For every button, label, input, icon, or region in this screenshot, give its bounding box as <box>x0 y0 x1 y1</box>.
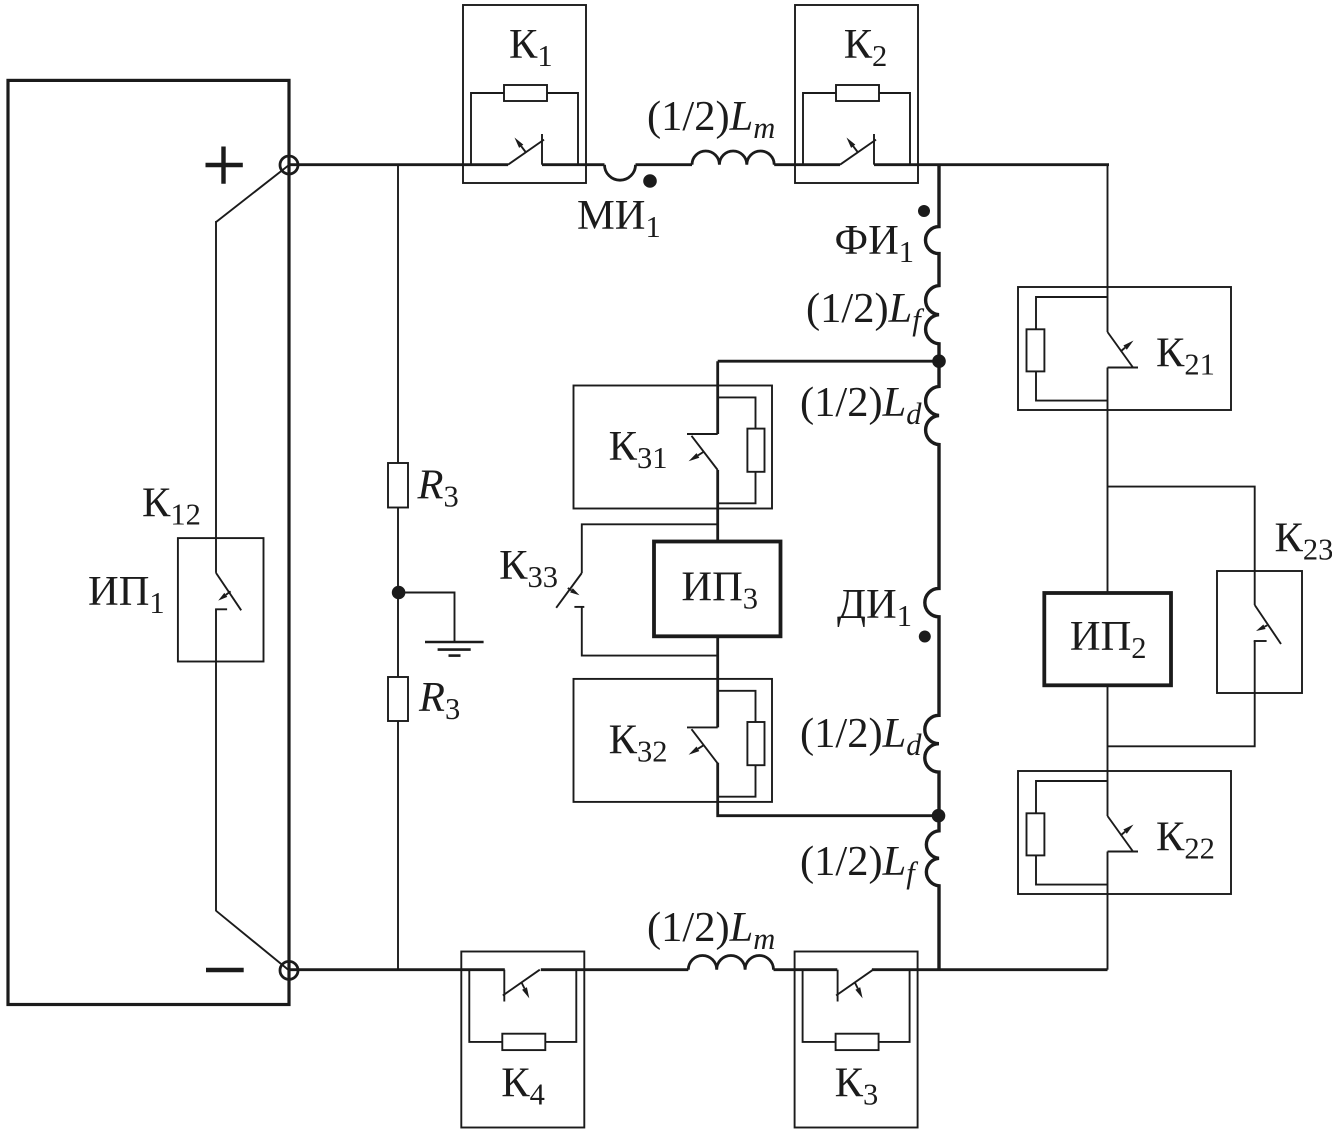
switch K33 fixed contact <box>574 606 584 608</box>
switch K12 blade <box>216 573 241 610</box>
contactor К1 fixed contact <box>541 134 543 165</box>
wire bottom bus: K3 to K22 branch <box>872 968 1108 971</box>
wire right branch: K22 to bottom bus <box>1107 852 1109 970</box>
contactor К4 shunt bracket <box>469 970 576 1042</box>
contactor К1 switch blade <box>508 140 544 165</box>
wire K33 bypass lower <box>582 607 718 656</box>
source ИП2 box <box>1044 593 1171 685</box>
contactor К2 box <box>795 5 918 183</box>
switch K23 arrow <box>1265 625 1268 626</box>
svg-text:(1/2)Ld: (1/2)Ld <box>800 710 922 762</box>
source ИП3 box <box>654 542 781 637</box>
inductor (1/2)Lm bottom <box>688 956 773 970</box>
power source ИП1 outer box <box>8 80 289 1004</box>
switch K23 blade <box>1255 605 1281 644</box>
inductor (1/2)Lm top <box>692 151 774 165</box>
contactor К31 fixed contact <box>687 433 718 435</box>
contactor К3 fixed contact <box>837 970 839 1002</box>
ground symbol <box>425 641 484 644</box>
contactor К22 box <box>1018 771 1231 894</box>
contactor К31 resistor <box>747 429 764 472</box>
switch K23 box <box>1217 571 1302 693</box>
wire middle vertical between K31 and IP3 <box>716 470 719 542</box>
contactor К2 shunt bracket <box>803 93 910 165</box>
wire middle branch top horizontal <box>718 360 939 363</box>
contactor К31 shunt bracket <box>718 397 756 503</box>
wire middle vertical between IP3 and K32 <box>716 636 719 728</box>
contactor К32 shunt bracket <box>718 691 756 797</box>
node junction dot lower <box>932 809 946 823</box>
contactor К32 resistor <box>747 722 764 765</box>
contactor К4 resistor <box>502 1034 545 1050</box>
main vertical conductor with winding bumps <box>925 165 939 970</box>
contactor К4 box <box>461 952 584 1128</box>
node terminal - <box>280 961 298 979</box>
contactor К3 arrow <box>855 983 858 989</box>
wire R3 column middle <box>397 508 399 678</box>
contactor К21 shunt bracket <box>1036 297 1108 401</box>
node МИ1 dot <box>643 174 657 188</box>
contactor К4 fixed contact <box>503 970 505 1002</box>
wire top bus: terminal to K1 contact <box>289 163 508 166</box>
node ФИ1 dot <box>918 205 930 217</box>
contactor К22 fixed contact <box>1108 851 1139 853</box>
contactor К21 switch blade <box>1108 332 1134 368</box>
contactor К1 arrow <box>521 146 526 152</box>
wire top bus: K2 to right corner, down to K21 <box>874 165 1108 332</box>
contactor К32 switch blade <box>692 729 718 763</box>
wire right branch: K21 to IP2 <box>1107 368 1109 594</box>
contactor К32 fixed contact <box>687 726 718 728</box>
wire diagonal to - terminal <box>216 911 289 971</box>
wire K33 bypass upper <box>582 524 718 573</box>
contactor К22 arrow <box>1121 832 1126 836</box>
wire to ground <box>399 593 455 643</box>
contactor К1 shunt bracket <box>471 93 578 165</box>
resistor R3 upper <box>388 463 408 508</box>
contactor К31 arrow <box>698 452 704 456</box>
wire top bus: Lm to K2 contact <box>774 163 840 166</box>
node terminal + <box>280 156 298 174</box>
wire R3 column top <box>397 165 399 463</box>
wire middle vertical upper <box>716 361 719 434</box>
contactor К32 box <box>574 679 773 802</box>
wire bottom bus: Lm to K3 contact <box>774 968 838 971</box>
switch K33 blade <box>556 573 582 608</box>
contactor К2 fixed contact <box>873 134 875 165</box>
wire K12 column upper <box>215 221 217 573</box>
contactor К1 box <box>463 5 586 183</box>
contactor К2 resistor <box>836 85 879 101</box>
wire bottom bus: terminal to K4 contact <box>289 968 505 971</box>
contactor К31 switch blade <box>692 436 718 470</box>
wire K23 branch top <box>1108 487 1255 605</box>
contactor К3 switch blade <box>836 970 873 996</box>
wire diagonal from + terminal to K12 column <box>216 165 289 222</box>
contactor К2 switch blade <box>840 140 876 165</box>
node ДИ1 dot <box>919 631 931 643</box>
switch K33 arrow <box>568 588 572 590</box>
contactor К22 resistor <box>1027 813 1045 855</box>
contactor К21 resistor <box>1027 329 1045 371</box>
resistor R3 lower <box>388 677 408 721</box>
contactor К31 box <box>574 386 773 509</box>
wire top bus: MI1 to Lm <box>636 163 693 166</box>
svg-text:(1/2)Lf: (1/2)Lf <box>806 285 924 337</box>
contactor К2 arrow <box>853 146 858 152</box>
wire top bus: K1 to MI1 bump <box>542 163 605 166</box>
contactor К3 box <box>795 952 918 1128</box>
contactor К32 arrow <box>698 745 704 749</box>
node ground junction dot <box>392 586 406 600</box>
wire K12 column lower <box>215 609 217 911</box>
wire right branch: IP2 to K22 <box>1107 685 1109 816</box>
plus terminal mark <box>206 147 243 184</box>
contactor К21 fixed contact <box>1108 367 1139 369</box>
switch K12 arrow <box>226 591 231 595</box>
switch K23 fixed contact <box>1254 640 1267 642</box>
switch K12 box <box>178 538 264 661</box>
switch K12 fixed contact <box>215 608 227 610</box>
contactor К21 box <box>1018 287 1231 410</box>
contactor К22 shunt bracket <box>1036 781 1108 885</box>
node junction dot upper <box>932 354 946 368</box>
wire middle vertical below K32 and bottom horizontal <box>718 763 939 816</box>
svg-text:(1/2)Ld: (1/2)Ld <box>800 379 922 431</box>
contactor К22 switch blade <box>1108 816 1134 852</box>
contactor К4 switch blade <box>503 970 540 996</box>
minus terminal mark <box>206 968 244 972</box>
wire bottom bus: K4 to Lm <box>541 968 689 971</box>
wire top bus K2-segment (thicker overlay) <box>874 163 1109 166</box>
wire R3 column bottom <box>397 721 399 970</box>
wire K23 branch bottom <box>1108 641 1255 746</box>
contactor К3 shunt bracket <box>803 970 910 1042</box>
contactor К3 resistor <box>836 1034 879 1050</box>
svg-text:(1/2)Lf: (1/2)Lf <box>800 838 918 890</box>
contactor К21 arrow <box>1121 348 1126 352</box>
sensor МИ1 bump <box>605 165 636 181</box>
contactor К4 arrow <box>522 983 525 989</box>
contactor К1 resistor <box>504 85 547 101</box>
